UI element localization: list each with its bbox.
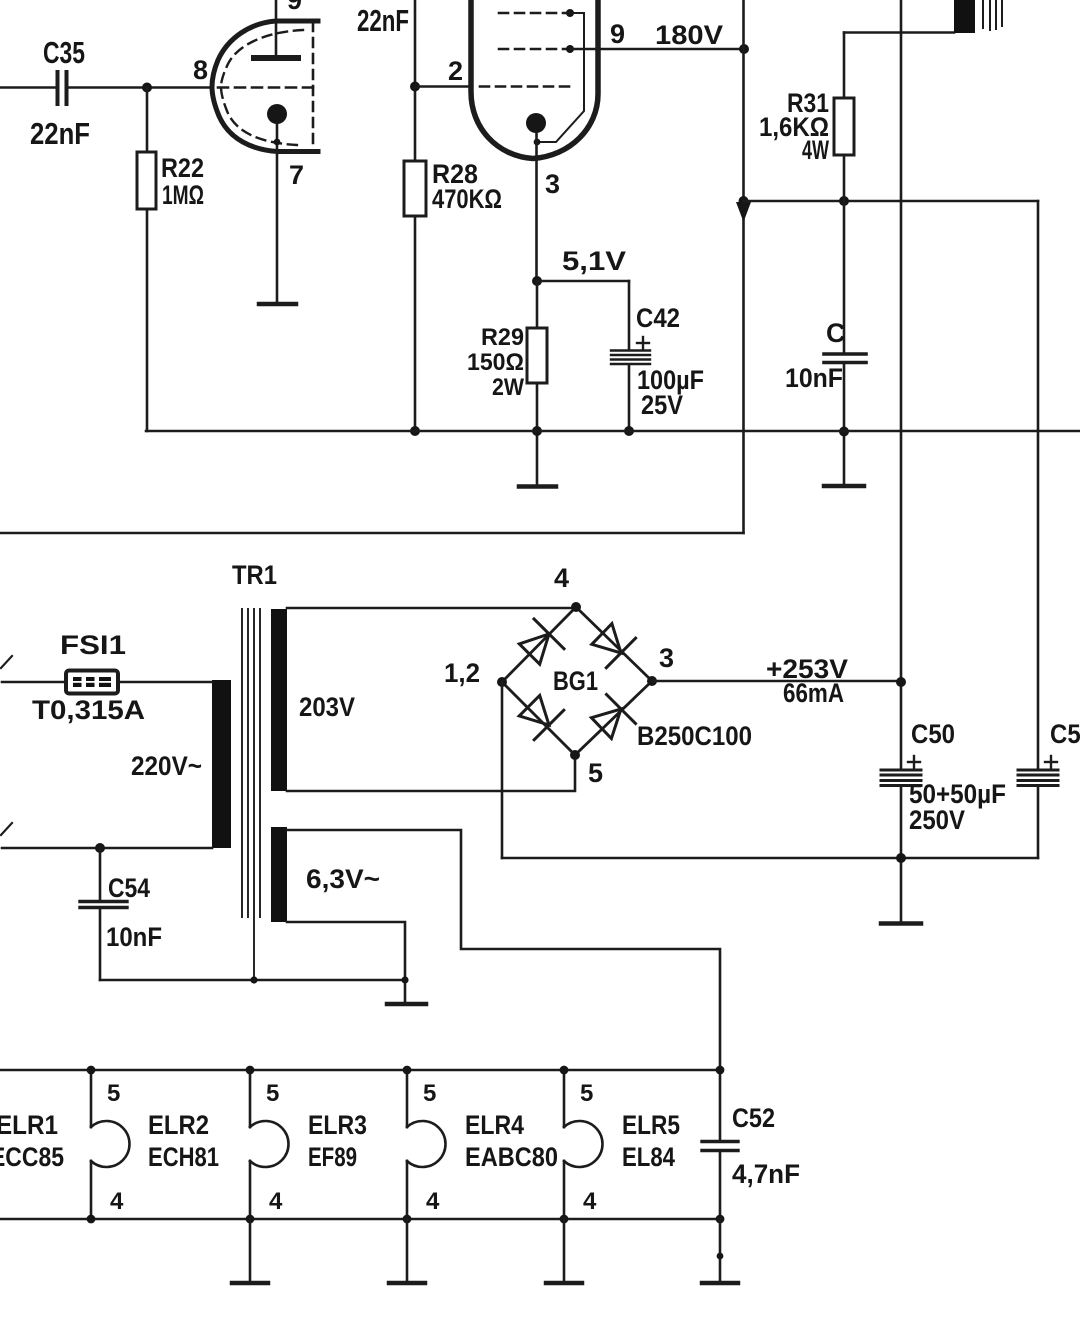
node C42 bottom [624,426,634,436]
svg-text:4: 4 [554,563,569,593]
wire 1,2 down [501,682,504,858]
capacitor C (10nF) [824,201,866,486]
svg-text:9: 9 [287,0,302,15]
svg-text:T0,315A: T0,315A [32,695,145,725]
svg-text:ELR1: ELR1 [0,1110,58,1140]
svg-text:5: 5 [107,1080,120,1107]
svg-text:1MΩ: 1MΩ [162,180,204,210]
ground (C52) [702,1219,738,1283]
heater ELR5 [560,1066,603,1224]
arrow down on 743 [736,202,751,222]
ground (R29/C42) [519,484,556,489]
diode D4 (5 to 3) [591,695,635,739]
cathode V1 [267,104,287,304]
svg-text:C52: C52 [732,1103,775,1133]
diode D3 (1,2 to 5) [519,695,564,739]
ground (TR1/C54) [387,1002,426,1007]
label R29 150Ω 2W [467,324,524,401]
screen pin 9 wire to 180V [566,45,745,53]
resistor R29 [527,281,547,486]
node R29 bottom [532,426,542,436]
node C bottom [839,427,849,437]
wire heater bus top [0,1069,720,1072]
label ELR3 EF89 [308,1110,367,1172]
wire mains bottom [2,847,212,850]
svg-text:66mA: 66mA [783,678,844,708]
wire 6,3V bottom to ground [287,922,405,1003]
svg-text:B250C100: B250C100 [637,721,752,751]
wire mains top to fuse [2,681,66,684]
wire 203V bottom to bridge node 5 [287,755,575,791]
capacitor C50a electrolytic [881,756,921,923]
svg-text:180V: 180V [655,20,723,50]
wire 5,1V node [532,276,629,286]
svg-text:3: 3 [545,169,560,199]
svg-text:2W: 2W [492,374,524,401]
wire B+ rail 201 [744,200,1039,203]
bridge rectifier BG1 diamond [502,607,652,755]
mains input tick bottom [1,823,12,835]
svg-text:2: 2 [448,56,463,86]
grid 3 V2 (dashed, pin 2) [480,85,570,88]
ground (C 10nF) [824,484,864,489]
ground (V1 cathode) [259,302,296,307]
wire 6,3V top route to heaters [287,830,720,1070]
transformer TR1 primary winding [212,680,231,848]
resistor R22 [137,88,156,432]
fuse FSI1 [66,671,212,694]
svg-text:150Ω: 150Ω [467,349,524,376]
transformer TR1 core [242,609,260,980]
diode D1 (1,2 to 4) [519,619,564,664]
ground (ELR3) [232,1219,268,1283]
svg-text:ELR2: ELR2 [148,1110,209,1140]
svg-text:5: 5 [588,758,603,788]
ground (C50) [881,921,921,926]
node junction grid2 [410,82,420,92]
wire lower rail y533 [0,532,744,535]
svg-text:4: 4 [426,1188,440,1215]
svg-text:EF89: EF89 [308,1142,357,1172]
capacitor C52 [702,1066,738,1224]
svg-text:10nF: 10nF [785,363,843,393]
svg-text:203V: 203V [299,692,355,722]
svg-text:ELR3: ELR3 [308,1110,367,1140]
resistor R28 [404,161,426,431]
svg-text:C50: C50 [911,719,955,749]
svg-text:4W: 4W [802,135,829,165]
node C50a bottom [896,853,906,863]
svg-text:C50: C50 [1050,719,1080,749]
svg-text:22nF: 22nF [30,116,90,151]
svg-text:C: C [826,318,846,348]
internal link g3-cathode [534,9,584,145]
svg-text:C35: C35 [43,35,85,70]
label ELR2 ECH81 [148,1110,219,1172]
node C50a top [896,677,906,687]
wire from 22nF cap above (cropped) [414,0,417,161]
svg-text:TR1: TR1 [232,560,277,590]
svg-text:220V~: 220V~ [131,751,202,781]
svg-text:5: 5 [266,1080,279,1107]
ground (ELR5) [546,1219,582,1283]
label C42 100µF 25V [636,303,704,420]
label R22 1MΩ [161,153,204,210]
node R28 bottom [410,426,420,436]
node 1,2 [497,677,507,687]
heater ELR2 [87,1066,130,1224]
svg-text:9: 9 [610,19,625,49]
wire bottom return rail [502,857,1038,860]
svg-text:5: 5 [423,1080,436,1107]
svg-text:3: 3 [659,643,674,673]
transformer TR1 secondary 203V winding [271,609,287,791]
svg-text:6,3V~: 6,3V~ [306,864,380,894]
output transformer core lines [983,0,1002,30]
capacitor C42 electrolytic [611,281,650,431]
pentode V2 envelope [471,0,598,159]
wire heater bus bottom [0,1218,720,1221]
wire vertical 901 (B+ to C50) [900,0,903,768]
svg-text:C54: C54 [108,873,150,903]
node 405/980 [401,976,408,983]
grid 1 V2 (dashed, top) [499,12,570,15]
svg-text:250V: 250V [909,805,965,835]
svg-text:25V: 25V [641,390,683,420]
node core/rail [250,976,257,983]
svg-text:R22: R22 [161,153,204,183]
capacitor C54 [80,848,127,980]
heater ELR1 label (cropped) [0,1110,64,1172]
node C54 top [95,843,105,853]
wire +253V [652,680,901,683]
svg-text:5,1V: 5,1V [562,246,626,276]
label C 10nF [785,318,846,393]
label ELR5 EL84 [622,1110,680,1172]
wire grid input left [0,86,55,89]
triode V1 (half envelope) [212,21,318,152]
heater ELR3 [246,1066,289,1224]
grid V1 pin 8 (dashed) [218,86,313,89]
svg-text:FSI1: FSI1 [60,630,126,660]
wire ground rail y431 [146,430,1080,433]
cathode V2 [526,113,546,281]
svg-text:470KΩ: 470KΩ [432,184,502,214]
label R31 1,6KΩ 4W [759,88,829,165]
wire pin 2 [415,85,471,88]
node 3 [647,676,657,686]
transformer TR1 heater 6,3V winding [271,827,287,922]
output transformer winding (cropped) [954,0,975,33]
svg-text:R29: R29 [481,324,524,351]
svg-text:ELR5: ELR5 [622,1110,680,1140]
node 743/201 [739,196,749,206]
node 5 [570,750,580,760]
resistor R31 [834,33,854,202]
diode D2 (4 to 3) [592,624,636,668]
wire vertical 743 [742,0,745,533]
wire 203V top to bridge node 4 [287,607,576,610]
heater ELR4 [403,1066,446,1224]
svg-text:10nF: 10nF [106,922,162,952]
mains input tick top [1,656,12,668]
svg-text:4,7nF: 4,7nF [732,1159,800,1189]
svg-text:ECC85: ECC85 [0,1142,64,1172]
capacitor C35 [58,72,213,104]
svg-text:5: 5 [580,1080,593,1107]
grid 2 V2 (dashed) [499,48,570,51]
capacitor C50b electrolytic [1018,201,1058,858]
wire R31 to output transformer [844,31,954,34]
svg-text:4: 4 [269,1188,283,1215]
svg-text:BG1: BG1 [553,666,598,696]
node R31 bottom [839,196,849,206]
node junction R22/grid [142,83,152,93]
ground (ELR4) [389,1219,425,1283]
svg-text:4: 4 [110,1188,124,1215]
label R28 470KΩ [432,159,502,214]
svg-text:EABC80: EABC80 [465,1142,558,1172]
node 4 [571,602,581,612]
svg-text:C42: C42 [636,303,680,333]
svg-text:1,2: 1,2 [444,658,480,688]
node 180V junction [739,44,749,54]
svg-text:4: 4 [583,1188,597,1215]
svg-text:ECH81: ECH81 [148,1142,219,1172]
svg-text:ELR4: ELR4 [465,1110,524,1140]
wire C54 bottom rail [100,979,405,982]
svg-text:8: 8 [193,55,208,85]
svg-text:22nF: 22nF [357,3,409,38]
svg-text:7: 7 [289,160,304,190]
label ELR4 EABC80 [465,1110,558,1172]
anode V1 [254,0,298,58]
svg-text:EL84: EL84 [622,1142,675,1172]
